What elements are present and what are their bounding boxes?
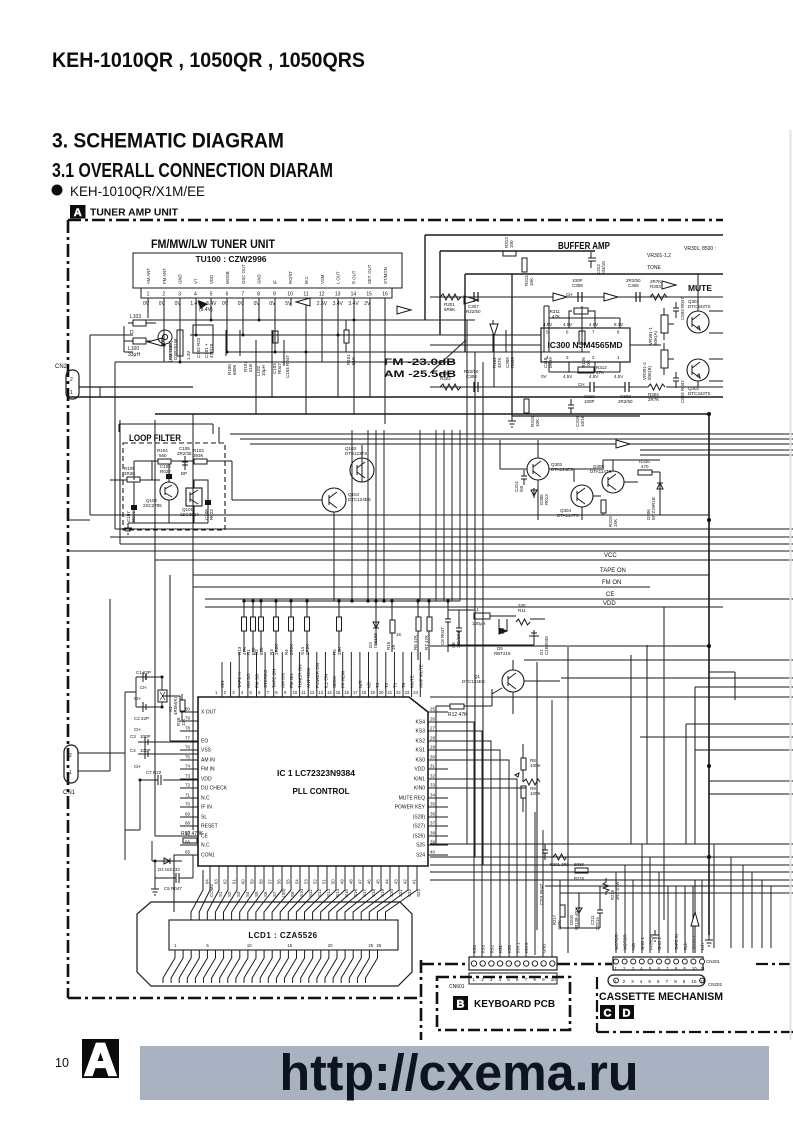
capacitor C1 22P [136,672,148,682]
coil L103 [128,320,156,326]
svg-text:R302: R302 [440,376,451,381]
capacitor C302 2R2/50 [625,382,629,392]
resistor R201 2R2 [553,854,567,860]
svg-text:L103: L103 [130,314,141,320]
svg-text:AM ON: AM ON [280,673,285,688]
svg-text:21: 21 [387,690,392,695]
capacitor C314 [521,470,527,485]
svg-text:MOSB: MOSB [225,271,230,284]
LCD pin numbers [174,943,382,948]
svg-text:(S26): (S26) [413,834,426,840]
svg-text:DTB123TS: DTB123TS [345,451,367,456]
svg-text:C2 22P: C2 22P [134,716,149,721]
svg-text:34: 34 [430,793,436,798]
svg-text:KS3: KS3 [416,729,426,735]
svg-text:TAPE H: TAPE H [237,672,242,688]
svg-text:2SC2785: 2SC2785 [143,503,162,508]
svg-text:GND: GND [257,274,262,284]
svg-text:/50: /50 [519,485,524,492]
svg-text:KS0: KS0 [507,944,512,953]
svg-text:R22/50: R22/50 [464,369,479,374]
svg-text:B: B [457,999,465,1011]
svg-text:1: 1 [69,770,72,776]
inductor L1 100uH [474,613,490,619]
svg-text:33: 33 [430,783,436,788]
svg-text:S24: S24 [416,853,425,859]
IC1 bottom pin wires [210,866,417,890]
page number [55,1056,69,1070]
svg-text:0V: 0V [143,301,150,307]
right main rail [708,414,710,935]
svg-text:MUTE REQ: MUTE REQ [399,796,426,802]
svg-text:497K: 497K [497,357,502,368]
svg-text:EO: EO [201,739,208,745]
svg-text:10: 10 [55,1056,69,1070]
ground near C5 [151,884,159,895]
PLL to LCD link wires [174,855,417,920]
svg-text:GND: GND [178,274,183,284]
keyboard unit label B [453,996,555,1011]
capacitor C309 100P [578,292,582,302]
svg-text:560: 560 [159,453,167,458]
loop filter box [123,443,225,530]
svg-text:KIN 1: KIN 1 [516,942,521,953]
svg-text:1: 1 [70,390,73,396]
arrows on buffer input [553,293,567,301]
svg-text:3.1 OVERALL CONNECTION DIARAM: 3.1 OVERALL CONNECTION DIARAM [52,160,333,182]
svg-text:75: 75 [185,755,191,760]
svg-text:TU100 : CZW2996: TU100 : CZW2996 [196,255,268,264]
svg-text:N/R: N/R [358,680,363,689]
svg-text:S1: S1 [218,891,223,897]
connector CN202 [608,975,705,986]
svg-text:55: 55 [286,879,291,884]
svg-text:KEYBOARD PCB: KEYBOARD PCB [474,999,555,1010]
resistors R6 R7 47K [416,617,421,631]
svg-text:64: 64 [205,879,210,884]
resistor R315 10K [524,399,529,413]
left column wiring [125,677,198,884]
svg-text:FM SO: FM SO [255,673,260,688]
svg-text:VDD: VDD [414,767,425,773]
svg-text:48: 48 [349,879,354,884]
svg-text:10: 10 [247,943,252,948]
svg-text:LCD1 : CZA5526: LCD1 : CZA5526 [248,931,317,940]
resistor R15 1K [390,620,395,633]
tuner area passives row [164,318,349,366]
svg-text:20: 20 [328,943,333,948]
left arrow on 444 [616,440,630,448]
capacitor C503 R047 [673,302,679,318]
IC1 top pin wires [222,652,420,697]
IC1 right pin wires [428,712,448,855]
svg-text:Lch: Lch [700,943,705,950]
svg-text:FM IN: FM IN [201,767,215,773]
svg-text:2R2K: 2R2K [289,644,294,655]
svg-text:KS4: KS4 [416,720,426,726]
svg-text:M.C: M.C [304,276,309,284]
ground mid [651,930,659,941]
svg-text:13: 13 [335,292,341,298]
unit label A [70,205,178,219]
svg-text:10μH: 10μH [261,365,266,376]
svg-text:D: D [623,1008,631,1020]
svg-text:SET. OUT: SET. OUT [367,264,372,284]
svg-text:(S0): (S0) [281,888,286,897]
resistor R319 15K [601,500,606,513]
page title [52,48,365,72]
transistor Q302 DTC343TS [687,359,709,381]
capacitor C4 100P [138,749,150,759]
potentiometer VR301-2 [661,350,668,368]
svg-text:CH: CH [566,292,573,297]
svg-text:497K: 497K [557,920,562,930]
svg-text:51B: 51B [248,364,253,372]
svg-text:0V: 0V [222,301,229,307]
svg-text:0V: 0V [159,301,166,307]
svg-text:61: 61 [232,879,237,884]
svg-text:74: 74 [185,764,191,769]
svg-text:CN2: CN2 [55,364,68,370]
svg-text:CH: CH [140,685,147,690]
capacitor C6 330/6R3 [456,616,462,645]
svg-text:RBT219: RBT219 [494,651,511,656]
svg-text:680K: 680K [232,364,237,375]
resistor R316 470 [638,470,652,475]
resistor R104 560 [158,459,171,464]
svg-text:2R2K: 2R2K [305,644,310,655]
svg-text:DTC343TS: DTC343TS [688,391,711,396]
LCD display outline [137,902,412,986]
capacitor C307 R22/50 [474,292,478,302]
bottom wire bundle [430,320,793,893]
svg-text:71: 71 [185,793,191,798]
svg-text:GND 1: GND 1 [640,937,645,950]
svg-text:80: 80 [185,707,191,712]
svg-text:65: 65 [185,850,191,855]
svg-text:IF: IF [272,280,277,284]
svg-text:32: 32 [430,774,436,779]
svg-text:6: 6 [226,292,229,298]
cassette riser bundle [616,844,702,953]
up arrow near cassette [691,912,699,926]
svg-text:R OUT: R OUT [351,270,356,284]
svg-text:22: 22 [396,690,401,695]
svg-text:N/B: N/B [631,943,636,950]
svg-text:393K: 393K [193,453,204,458]
svg-text:2R7K: 2R7K [648,397,659,402]
resistor R103 393K [194,459,207,464]
svg-text:KIN0: KIN0 [414,786,425,792]
page scan edge [790,130,792,1040]
svg-text:100K: 100K [530,791,541,796]
svg-text:FF REW: FF REW [341,670,346,688]
svg-text:CH: CH [134,727,141,732]
svg-text:ANT REM: ANT REM [306,668,311,688]
svg-text:AM IN: AM IN [201,758,215,764]
svg-text:53: 53 [304,879,309,884]
svg-text:X OUT: X OUT [201,710,216,716]
svg-text:30: 30 [430,755,436,760]
svg-text:KS4: KS4 [472,944,477,953]
svg-text:IC300 NJM4565MD: IC300 NJM4565MD [547,340,622,350]
svg-text:35: 35 [430,802,436,807]
svg-text:DU CHECK: DU CHECK [201,786,228,792]
svg-text:T3: T3 [375,682,380,688]
svg-text:2: 2 [69,753,72,759]
svg-text:13: 13 [318,690,323,695]
svg-text:57: 57 [268,879,273,884]
svg-text:27: 27 [430,726,436,731]
svg-text:CH: CH [134,696,141,701]
svg-text:KD: KD [367,681,372,688]
mid verticals [352,430,460,601]
svg-text:(AM 686K): (AM 686K) [168,340,173,362]
svg-text:L OUT: L OUT [336,271,341,284]
svg-text:38: 38 [430,831,436,836]
svg-text:R047: R047 [277,363,282,374]
svg-text:58: 58 [259,879,264,884]
svg-text:220/16: 220/16 [595,917,600,930]
transistor Q305 DTA114TS [602,471,624,493]
tuner amp unit dash-dot border [68,220,723,1040]
transistor Q1 DTC124ES [502,670,524,692]
svg-text:820: 820 [259,647,264,655]
transistor Q101 2SC3624 [186,488,202,506]
svg-text:14: 14 [351,292,357,298]
svg-text:45: 45 [376,879,381,884]
diode D200 5R138-400 [576,903,582,917]
svg-text:11: 11 [303,292,308,298]
svg-text:KS2: KS2 [416,739,426,745]
resistor R2 820 [259,617,264,631]
battery C1E2049 [529,630,539,640]
tuner output bus wires [115,306,590,362]
svg-text:26: 26 [377,943,382,948]
svg-text:KIN1: KIN1 [414,777,425,783]
capacitor C2 22P [136,702,148,712]
svg-text:47: 47 [358,879,363,884]
svg-text:59: 59 [250,879,255,884]
svg-text:R6 47K: R6 47K [413,635,418,650]
svg-text:KEH-1010QR , 1050QR , 1050QRS: KEH-1010QR , 1050QR , 1050QRS [52,48,365,72]
svg-text:VDD: VDD [209,275,214,284]
svg-text:OSC OUT: OSC OUT [241,264,246,284]
svg-text:POWER ON: POWER ON [315,663,320,688]
diode D3 ISS133 [373,601,379,645]
capacitor C504 R047 [673,372,679,388]
section heading [52,129,333,183]
svg-text:FM/MW/LW TUNER UNIT: FM/MW/LW TUNER UNIT [151,239,275,251]
svg-text:CH: CH [578,382,585,387]
svg-text:330: 330 [518,603,526,608]
svg-text:28: 28 [430,736,436,741]
svg-text:330/6R3: 330/6R3 [456,630,461,648]
resistor R302 5R6K [440,384,461,390]
svg-text:10: 10 [287,292,293,298]
svg-text:11: 11 [700,979,705,984]
svg-text:37: 37 [430,821,436,826]
svg-text:R216: R216 [574,876,585,881]
vertical risers to PLL left [110,414,193,836]
svg-text:46: 46 [367,879,372,884]
svg-text:70: 70 [185,802,191,807]
svg-text:R22/50: R22/50 [466,309,481,314]
connector CN1 [64,745,78,783]
svg-text:76: 76 [185,745,191,750]
resistor R303 2R7K [650,294,667,300]
svg-text:POWER KEY: POWER KEY [395,805,426,811]
resistor R13 47K [242,617,247,631]
svg-text:69: 69 [185,812,191,817]
FM/MW/LW tuner unit TU100 [151,239,275,251]
cassette line labels [614,931,705,950]
op-amp IC300 [541,328,630,362]
svg-text:C309: C309 [572,283,583,288]
resistor R314 10K [522,258,527,272]
svg-text:100: 100 [509,240,514,248]
vertical risers left [90,335,120,544]
svg-text:11: 11 [301,690,306,695]
capacitor C316 10/16 [568,399,574,414]
resistor R216 6R8K [575,868,588,873]
svg-text:ISS133: ISS133 [373,633,378,648]
svg-text:C1E2049: C1E2049 [544,636,549,655]
cassette mechanism border [597,964,793,1032]
microcontroller IC1 LC72323N9384 PLL CONTROL [198,697,428,866]
MUTE heading [688,283,712,293]
resistor R219 3R3 [603,878,609,895]
svg-text:R11: R11 [518,608,526,613]
svg-text:C5 R047: C5 R047 [164,886,182,891]
wire lower mute [430,372,723,387]
svg-text:8.1V: 8.1V [614,322,623,327]
resistor R18 [180,700,185,711]
svg-text:MOTOR−: MOTOR− [623,931,628,950]
svg-text:CN601: CN601 [449,984,465,990]
capacitor C106 R022 [166,474,172,479]
svg-text:4: 4 [194,292,197,298]
svg-text:26: 26 [430,717,436,722]
svg-text:C3: C3 [130,734,136,739]
loop filter wires [110,461,232,523]
svg-text:16: 16 [382,292,388,298]
svg-text:10/16: 10/16 [580,415,585,427]
svg-text:5R6K: 5R6K [440,371,451,376]
svg-text:2R2/35: 2R2/35 [177,451,192,456]
svg-text:FM ON: FM ON [602,580,621,586]
svg-text:S5: S5 [254,891,259,897]
resistor R304 2R7K [648,384,665,390]
junction dots right rail [707,412,711,859]
svg-text:CN201: CN201 [706,959,721,964]
svg-text:C504 R047: C504 R047 [680,380,685,403]
svg-text:10: 10 [551,977,557,982]
svg-text:29: 29 [430,745,436,750]
svg-text:4R5M(K): 4R5M(K) [173,696,178,715]
svg-text:66: 66 [185,840,191,845]
svg-text:S7: S7 [272,891,277,897]
svg-text:68: 68 [185,821,191,826]
capacitor C308 R22/50 [474,382,478,392]
svg-text:103/10: 103/10 [601,261,606,275]
capacitor C8 R047 [445,601,451,652]
svg-text:1.4V: 1.4V [186,351,191,360]
svg-text:RESET: RESET [201,824,218,830]
transistor Q104 DTC124ES [322,488,346,512]
LCD pin fan wires [163,950,378,983]
svg-text:2: 2 [70,377,73,383]
svg-text:2: 2 [162,292,165,298]
TU100 pin labels and numbers [143,264,388,313]
cassette mechanism label [599,991,723,1020]
svg-text:5R138-400: 5R138-400 [574,909,579,930]
svg-text:62: 62 [223,879,228,884]
level note [384,357,457,379]
svg-text:VT: VT [193,278,198,284]
svg-text:12: 12 [310,690,315,695]
keyboard riser bundle [448,700,552,957]
top long wires [425,235,723,352]
svg-text:44: 44 [385,879,390,884]
right-side tuner passives [493,306,585,352]
svg-text:42: 42 [403,879,408,884]
connector CN2 [66,370,193,399]
svg-text:(S28): (S28) [413,815,426,821]
connector CN601 socket [469,957,557,970]
slanted leader to note [430,340,466,373]
svg-text:N.C: N.C [201,796,210,802]
svg-text:VCC: VCC [604,553,617,559]
potentiometer VR301-1 [661,315,668,333]
svg-text:4.5V: 4.5V [614,374,623,379]
svg-text:15: 15 [287,943,292,948]
TU100 pin wires [148,298,385,362]
svg-text:XIN: XIN [220,680,225,688]
capacitor C3 100P [138,737,150,747]
svg-text:FF/REW: FF/REW [648,934,653,950]
svg-text:33K: 33K [337,647,342,655]
svg-text:43: 43 [394,879,399,884]
connector CN201 [613,957,703,970]
svg-text:11: 11 [701,966,706,971]
svg-text:31: 31 [430,764,436,769]
resistor R5 33K [337,617,342,631]
bus labels [600,553,626,607]
Q30x wiring [500,460,660,515]
svg-text:VR301, 8500 :: VR301, 8500 : [684,246,716,252]
svg-text:(S27): (S27) [413,824,426,830]
svg-text:24: 24 [413,690,418,695]
capacitor C306 2R2/50 [636,292,640,302]
svg-text:5: 5 [210,292,213,298]
svg-text:10: 10 [691,979,697,984]
diode D5 RBT219 [499,628,507,634]
right area verticals [685,844,771,950]
svg-text:TUNER ON: TUNER ON [298,665,303,689]
svg-text:2R2K: 2R2K [274,644,279,655]
svg-text:10K: 10K [529,278,534,286]
svg-text:470: 470 [641,464,649,469]
transistor Q301 DTC343TS [687,311,709,333]
svg-text:18: 18 [362,690,367,695]
resistor R12 47K [450,704,464,709]
LCD1 CZA5526 [169,920,398,950]
svg-text:AM ANT: AM ANT [146,268,151,284]
svg-text:S25: S25 [416,843,425,849]
scan cursor artifact [198,300,208,309]
arrow into pin2 [148,338,162,346]
